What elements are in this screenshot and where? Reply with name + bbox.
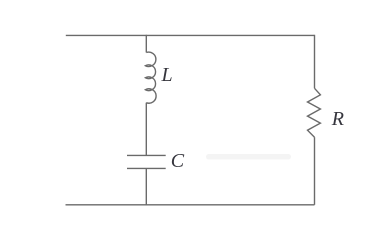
wire middle-top bbox=[145, 35, 147, 53]
wire right-top bbox=[314, 35, 316, 89]
wire middle-bottom bbox=[145, 168, 147, 204]
wire bottom bbox=[66, 204, 315, 206]
svg-text:R: R bbox=[331, 108, 344, 130]
wire right-bottom bbox=[314, 137, 316, 205]
wire top bbox=[66, 34, 315, 36]
svg-text:C: C bbox=[171, 150, 185, 172]
capacitor C top plate bbox=[127, 154, 166, 156]
svg-text:L: L bbox=[161, 64, 173, 86]
capacitor C bottom plate bbox=[127, 167, 166, 169]
inductor L bbox=[145, 52, 156, 103]
wire middle-mid bbox=[145, 103, 147, 156]
faint smudge artifact bbox=[206, 154, 291, 160]
resistor R bbox=[308, 88, 321, 137]
